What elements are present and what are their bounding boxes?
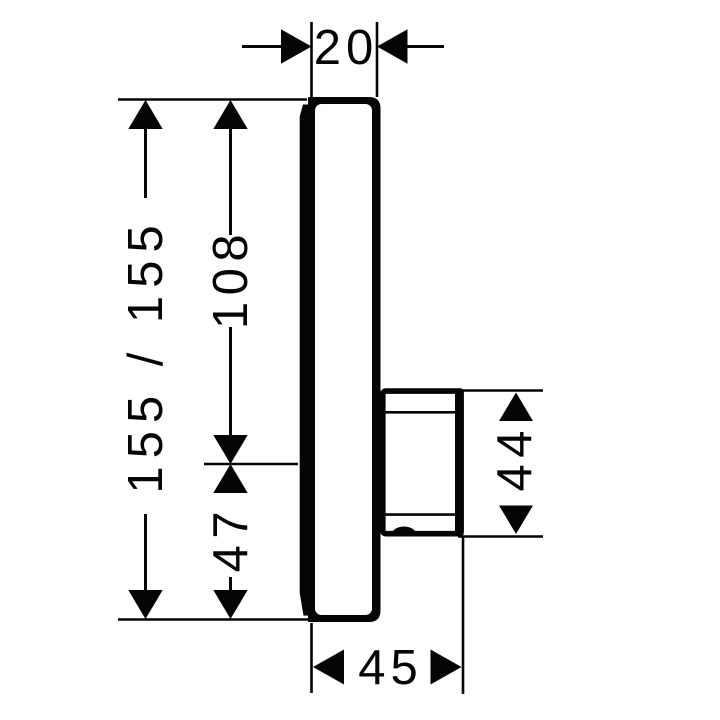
plate body interior [315, 104, 372, 615]
svg-text:44: 44 [488, 424, 542, 492]
dim 108: upper line segment [229, 127, 232, 235]
dim 20: left extension line [310, 22, 313, 97]
dim 20: left arrow [281, 29, 312, 63]
middle tick line at 108/47 split [204, 463, 298, 466]
plate front strip (left edge with chamfers) [300, 105, 309, 616]
dim 44: bottom extension line [458, 535, 543, 538]
dim 20: right leader line [406, 45, 444, 48]
dim 44: top arrow [499, 393, 533, 422]
dim 45: left extension line [310, 623, 313, 693]
dim 44: bottom arrow [499, 506, 533, 535]
valve protrusion box (right middle) [383, 391, 461, 534]
dim 155/155: upper line segment [144, 127, 147, 198]
protrusion inner top line [382, 411, 456, 414]
dim 108: bottom arrow (bowtie upper) [213, 435, 247, 464]
dim 44: top extension line [458, 389, 543, 392]
dim 45: right arrow [431, 650, 462, 685]
dim 108: top arrow [213, 100, 247, 129]
bottom extension line (left dims) [118, 618, 308, 621]
dim 45: left arrow [313, 650, 344, 685]
dim 108: lower line segment [229, 327, 232, 437]
dim 155/155: lower line segment [144, 514, 147, 592]
dim 155/155: bottom arrow [128, 590, 162, 619]
bump on protrusion bottom edge [392, 527, 416, 533]
dim 47: bottom arrow [213, 590, 247, 619]
valve protrusion thick right edge [455, 388, 464, 536]
svg-text:47: 47 [204, 505, 258, 573]
svg-text:20: 20 [314, 21, 379, 75]
dim 45: right extension line [462, 537, 465, 694]
dim 20: left leader line [242, 45, 283, 48]
dim 20: right arrow [377, 29, 408, 63]
svg-text:155 / 155: 155 / 155 [119, 217, 173, 493]
protrusion inner bottom line [382, 513, 456, 516]
dim 155/155: top arrow [128, 100, 162, 129]
svg-text:45: 45 [358, 641, 423, 695]
top extension line (left dims) [118, 98, 307, 101]
dim 47: top arrow (bowtie lower) [213, 464, 247, 493]
dim 20: right extension line [376, 22, 379, 97]
plate body (side view, main rectangle) [308, 97, 381, 622]
svg-text:108: 108 [204, 228, 258, 329]
dim 47: lower line segment [229, 577, 232, 592]
